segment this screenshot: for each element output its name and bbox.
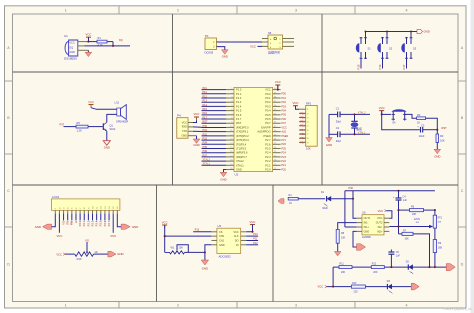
svg-text:P1.5: P1.5: [236, 109, 242, 113]
transistor Q1: [103, 122, 116, 131]
power VCC (DS18B20): [86, 32, 92, 41]
node rail S3: [410, 30, 412, 32]
node xtal top: [353, 113, 355, 115]
svg-text:XTAL1: XTAL1: [236, 163, 244, 167]
wire RXD: [193, 126, 202, 128]
svg-text:VCC: VCC: [250, 44, 256, 48]
svg-text:P17: P17: [203, 116, 208, 119]
svg-text:自锁开关: 自锁开关: [268, 49, 280, 54]
svg-text:CH0: CH0: [219, 235, 225, 238]
svg-text:P00: P00: [300, 112, 305, 115]
svg-text:GND: GND: [202, 267, 208, 271]
svg-text:CH1: CH1: [219, 239, 225, 242]
svg-text:20K: 20K: [341, 271, 346, 274]
switch S4 reset key: [392, 110, 407, 125]
svg-text:IN1+: IN1+: [364, 226, 370, 229]
svg-text:P06: P06: [281, 118, 286, 121]
svg-text:P2.1: P2.1: [265, 163, 271, 167]
node R6 tap: [397, 209, 399, 211]
svg-text:P13: P13: [195, 229, 200, 232]
capacitor C4: [393, 191, 407, 234]
svg-text:GND: GND: [69, 51, 75, 54]
pins of P4: [188, 123, 197, 136]
svg-text:P2.0: P2.0: [78, 220, 82, 226]
svg-text:EA/VPP: EA/VPP: [261, 125, 271, 129]
svg-text:U5: U5: [362, 210, 366, 214]
svg-text:3: 3: [295, 9, 297, 13]
svg-text:S1: S1: [368, 46, 372, 50]
net labels RP1: [300, 112, 305, 144]
node rail S1: [364, 30, 366, 32]
svg-text:DO: DO: [235, 239, 239, 242]
switch S1 key: [356, 37, 371, 59]
svg-text:RED: RED: [323, 207, 328, 210]
display LCD1: [52, 195, 120, 210]
svg-text:P0.0: P0.0: [265, 92, 271, 96]
ground (U2): [220, 172, 227, 181]
power VCC (U2 pin40): [275, 80, 281, 89]
svg-text:GND: GND: [181, 134, 187, 137]
svg-text:P4: P4: [177, 114, 181, 118]
svg-text:P2.2: P2.2: [265, 159, 271, 163]
svg-text:CSDN @qiushi_sx: CSDN @qiushi_sx: [443, 307, 471, 311]
svg-text:GND: GND: [220, 177, 226, 181]
svg-text:1.2K: 1.2K: [77, 128, 83, 132]
svg-text:P2.1: P2.1: [82, 220, 86, 226]
pin wires of U1: [78, 42, 89, 51]
resistor R6: [399, 206, 435, 216]
svg-text:30pf: 30pf: [336, 119, 341, 123]
svg-text:P15: P15: [203, 108, 208, 111]
svg-text:E: E: [74, 221, 78, 223]
wire out to op-amp: [353, 199, 357, 219]
pin names U2: [236, 88, 271, 172]
svg-text:1: 1: [65, 304, 67, 308]
svg-text:P1.4: P1.4: [236, 104, 242, 108]
svg-text:P11: P11: [203, 91, 208, 94]
node rail drop: [434, 209, 436, 211]
wire DQ net: [85, 39, 131, 46]
wire S3 to rail: [410, 32, 412, 38]
capacitor C5: [388, 250, 400, 268]
ground (reset): [434, 149, 441, 158]
wire D1 to node: [331, 198, 353, 200]
svg-text:(RD)P3.7: (RD)P3.7: [236, 155, 247, 159]
node ADC gnd column: [204, 251, 206, 253]
wire S4 to R2: [405, 114, 417, 118]
net labels U2 right: [281, 93, 288, 172]
port GND (LCD right): [121, 224, 138, 229]
svg-text:1uF: 1uF: [396, 255, 401, 258]
sensor U1 DS18B20: [64, 34, 78, 61]
svg-text:P23: P23: [281, 156, 286, 159]
svg-text:XTAL1: XTAL1: [203, 163, 211, 166]
wire sum row: [333, 266, 448, 268]
wire vcc to C3: [382, 114, 420, 129]
port GND (sum row): [446, 264, 455, 271]
svg-text:R13: R13: [352, 282, 357, 285]
port GND (led chain): [278, 199, 284, 204]
node sum/RT1: [434, 266, 436, 268]
capacitor C3: [417, 123, 425, 138]
svg-text:VCC: VCC: [265, 88, 271, 92]
svg-text:VCC: VCC: [110, 234, 116, 238]
svg-text:TXD: TXD: [182, 130, 187, 133]
wire vcc bridge row: [325, 267, 352, 288]
wire gnd side: [328, 114, 330, 137]
svg-text:P10: P10: [203, 87, 208, 90]
ground (DS18B20): [85, 50, 92, 56]
svg-text:P24: P24: [281, 152, 286, 155]
svg-text:P01: P01: [300, 116, 305, 119]
svg-text:IN2+: IN2+: [377, 230, 383, 233]
svg-text:P03: P03: [300, 125, 305, 128]
wire TXD: [193, 130, 202, 132]
svg-text:P25: P25: [281, 147, 286, 150]
svg-text:S3: S3: [413, 46, 417, 50]
svg-text:RT1: RT1: [438, 217, 443, 220]
svg-text:LM358: LM358: [362, 235, 371, 239]
svg-text:3: 3: [295, 304, 297, 308]
svg-text:C2: C2: [336, 126, 340, 130]
wire LCD pin15 vcc: [112, 214, 114, 233]
svg-text:R1: R1: [98, 36, 102, 40]
svg-text:GND: GND: [364, 230, 370, 233]
wire W1 to node: [185, 251, 205, 253]
wire S2 to net: [382, 59, 384, 69]
op-amp U5 LM358: [362, 210, 384, 239]
svg-text:P04: P04: [300, 129, 305, 132]
svg-text:VCC: VCC: [69, 41, 74, 44]
svg-text:P11: P11: [253, 238, 258, 241]
node VCC/R1 junction: [87, 41, 89, 43]
svg-text:P2.3: P2.3: [90, 220, 94, 226]
svg-text:GND: GND: [117, 252, 123, 256]
wire C2 to crystal: [340, 133, 370, 135]
svg-text:RS: RS: [66, 221, 70, 225]
ground (speaker): [103, 141, 110, 150]
wire op-amp gnd: [353, 231, 357, 247]
pins U3: [211, 232, 246, 245]
net labels U2 left: [203, 87, 211, 166]
pins LCD1: [55, 210, 117, 213]
svg-text:10uF: 10uF: [419, 134, 425, 138]
svg-text:P26: P26: [281, 143, 286, 146]
wire in+: [345, 226, 357, 228]
svg-text:VCC: VCC: [88, 100, 94, 104]
svg-text:P03: P03: [281, 105, 286, 108]
switch S3 key: [402, 37, 417, 59]
ground (crystal): [326, 138, 333, 147]
node led/out: [352, 198, 354, 200]
wire out rail: [345, 191, 435, 227]
wire to S4: [382, 113, 391, 115]
svg-text:LCD1: LCD1: [52, 195, 60, 199]
svg-text:GND: GND: [434, 155, 440, 159]
svg-text:P1.7: P1.7: [236, 117, 242, 121]
svg-text:P06: P06: [300, 137, 305, 140]
svg-text:P01: P01: [281, 97, 286, 100]
svg-text:S2: S2: [389, 46, 393, 50]
resistor R8: [336, 223, 357, 252]
node xtal bottom: [353, 133, 355, 135]
svg-text:IN2-: IN2-: [378, 226, 383, 229]
svg-text:VCC: VCC: [182, 121, 187, 124]
svg-text:P16: P16: [378, 64, 382, 69]
svg-text:OUT1: OUT1: [364, 217, 371, 220]
svg-text:10K: 10K: [306, 147, 311, 151]
wire VCC to R10: [63, 253, 74, 256]
svg-text:XTAL1: XTAL1: [358, 130, 366, 134]
wire S1 to net: [360, 59, 362, 69]
svg-text:30K: 30K: [405, 237, 410, 240]
svg-text:P0.2: P0.2: [265, 100, 271, 104]
svg-text:10K: 10K: [179, 247, 184, 250]
svg-text:P1.6: P1.6: [236, 113, 242, 117]
svg-text:S4: S4: [392, 121, 396, 125]
svg-text:VCC: VCC: [162, 220, 168, 224]
wire C3 to RST node: [423, 129, 438, 131]
svg-text:D: D: [461, 262, 464, 266]
wire VO to R10: [86, 242, 88, 252]
wire R5 to Q1 base: [88, 126, 103, 128]
svg-text:P2.3: P2.3: [265, 155, 271, 159]
svg-text:RW: RW: [70, 220, 74, 225]
wire VCC to S5: [258, 45, 263, 47]
svg-text:OUT2: OUT2: [376, 222, 383, 225]
svg-text:ALE: ALE: [281, 131, 286, 134]
svg-text:P12: P12: [203, 95, 208, 98]
svg-text:R2: R2: [417, 113, 421, 117]
svg-text:P16: P16: [203, 112, 208, 115]
svg-text:2: 2: [177, 304, 179, 308]
node U3 VCC: [251, 231, 253, 233]
svg-text:XTAL2: XTAL2: [236, 159, 244, 163]
svg-text:20K: 20K: [373, 271, 378, 274]
resistor R11: [339, 262, 352, 273]
svg-text:VCC: VCC: [377, 217, 382, 220]
led D2: [406, 260, 414, 274]
svg-text:220: 220: [354, 290, 359, 293]
wiper arrow R10: [86, 252, 88, 254]
ground (ADC): [201, 260, 208, 271]
wire ADC gnd: [205, 245, 212, 260]
svg-text:R5: R5: [77, 121, 81, 125]
svg-text:P35: P35: [203, 146, 208, 149]
svg-text:C: C: [7, 189, 10, 193]
power VCC (U3): [246, 220, 255, 232]
svg-text:1uF: 1uF: [403, 199, 408, 202]
svg-text:VCC: VCC: [293, 101, 299, 105]
wire to R5: [64, 126, 77, 128]
power VCC (ADC): [162, 220, 168, 252]
wire R10 to gnd: [94, 253, 108, 255]
svg-text:(INT1)P3.3: (INT1)P3.3: [236, 138, 249, 142]
svg-text:(TXD)P3.1: (TXD)P3.1: [236, 130, 249, 134]
svg-text:U1: U1: [64, 34, 68, 38]
svg-text:ALE/PROG: ALE/PROG: [257, 130, 270, 134]
speaker LS1: [115, 101, 129, 124]
wire P1 pin1 to switch: [217, 41, 263, 43]
svg-text:P0.4: P0.4: [265, 109, 271, 113]
svg-text:VCC: VCC: [86, 32, 92, 36]
wire xtal bottom: [329, 133, 338, 135]
svg-text:1: 1: [65, 9, 67, 13]
svg-text:PSEN: PSEN: [281, 135, 288, 138]
svg-text:P17: P17: [402, 64, 406, 69]
wires U2 left nets: [202, 90, 227, 166]
node sum/C5: [390, 266, 392, 268]
resistor R13: [351, 282, 365, 293]
svg-text:P31: P31: [203, 129, 208, 132]
wires LCD data pins: [64, 214, 109, 221]
svg-text:VCC: VCC: [281, 126, 286, 129]
svg-text:GND: GND: [219, 244, 225, 247]
svg-text:10K: 10K: [341, 237, 346, 240]
svg-text:(T0)P3.4: (T0)P3.4: [236, 142, 247, 146]
node reset vcc: [381, 113, 383, 115]
svg-text:XTAL2: XTAL2: [203, 159, 211, 162]
wire LCD pin1 gnd: [52, 214, 56, 227]
svg-text:P21: P21: [281, 164, 286, 167]
resistor R5: [76, 121, 88, 132]
svg-text:D: D: [7, 262, 10, 266]
svg-text:PSEN: PSEN: [264, 134, 271, 138]
port GND (R10): [108, 251, 124, 257]
svg-text:(T1)P3.5: (T1)P3.5: [236, 146, 247, 150]
svg-text:4: 4: [406, 9, 408, 13]
wire CH0: [165, 235, 212, 237]
svg-text:C1: C1: [336, 106, 340, 110]
svg-text:P2.2: P2.2: [86, 220, 90, 226]
svg-text:VCC: VCC: [275, 80, 281, 84]
svg-text:P07: P07: [281, 122, 286, 125]
pins of S5: [262, 39, 294, 47]
svg-text:GND: GND: [104, 146, 110, 150]
microcontroller U2 AT89C51: [234, 87, 273, 176]
capacitor C2: [336, 126, 341, 143]
port GND (bridge row): [411, 283, 419, 290]
svg-text:30pf: 30pf: [336, 139, 341, 143]
svg-text:P2.7: P2.7: [265, 138, 271, 142]
svg-text:C3: C3: [421, 123, 425, 127]
thermistor RT1: [433, 210, 443, 240]
potentiometer W1: [165, 245, 189, 254]
node sum/R7: [428, 266, 430, 268]
svg-text:P34: P34: [203, 142, 208, 145]
node rail/C4: [397, 190, 399, 192]
svg-text:30K: 30K: [438, 246, 443, 249]
node U2 VCC: [277, 89, 279, 91]
svg-text:P04: P04: [281, 110, 286, 113]
resistor R1: [88, 36, 113, 47]
node DQ junction: [112, 45, 114, 47]
svg-text:1K: 1K: [94, 250, 97, 254]
svg-text:RXD: RXD: [182, 126, 187, 129]
svg-text:RP1: RP1: [306, 101, 312, 105]
pins RP1: [299, 109, 306, 142]
svg-text:P05: P05: [300, 133, 305, 136]
adc U3 ADC0832: [217, 224, 241, 258]
svg-text:Q1: Q1: [110, 123, 114, 127]
svg-text:P07: P07: [300, 141, 305, 144]
svg-text:P1.0: P1.0: [236, 88, 242, 92]
svg-text:P0.1: P0.1: [265, 96, 271, 100]
wire LCD pin16 gnd: [117, 214, 121, 227]
svg-text:LS1: LS1: [115, 101, 120, 105]
svg-text:P0.7: P0.7: [265, 121, 271, 125]
net labels U3 right: [253, 233, 258, 245]
svg-text:P36: P36: [349, 187, 354, 190]
resistor R9: [433, 240, 442, 268]
ground (P1): [222, 50, 229, 59]
port GND (op-amp): [357, 244, 366, 250]
svg-text:P2.5: P2.5: [99, 220, 103, 226]
svg-text:VCC: VCC: [318, 285, 324, 289]
wire speaker to Q1 collector: [107, 114, 117, 122]
resistor R4: [288, 194, 298, 205]
svg-text:P1.2: P1.2: [236, 96, 242, 100]
svg-text:P32: P32: [203, 133, 208, 136]
svg-text:R12: R12: [372, 262, 377, 265]
svg-text:GND: GND: [222, 54, 228, 58]
resistor pack RP1: [306, 101, 318, 150]
node RST: [436, 129, 438, 131]
svg-text:VCC: VCC: [378, 209, 384, 213]
svg-text:IN1-: IN1-: [364, 222, 369, 225]
svg-text:P02: P02: [300, 121, 305, 124]
svg-text:P20: P20: [281, 168, 286, 171]
switch S5 self-lock: [268, 31, 283, 54]
svg-text:P02: P02: [281, 101, 286, 104]
svg-text:VCC: VCC: [379, 106, 385, 110]
power VCC (reset): [379, 106, 385, 115]
svg-text:W1: W1: [171, 247, 175, 250]
svg-text:P15: P15: [356, 64, 360, 69]
svg-text:VO: VO: [85, 238, 89, 242]
port GND (LCD left): [35, 224, 52, 229]
led D1: [321, 191, 331, 210]
wire CS: [193, 231, 211, 233]
pins U2 left: [226, 88, 234, 170]
power VCC (P4): [193, 112, 199, 122]
svg-text:R3: R3: [440, 134, 444, 138]
wire U2 pin20 GND: [224, 170, 227, 173]
resistor R3: [436, 130, 445, 150]
svg-text:P37: P37: [60, 123, 65, 127]
svg-text:P2.6: P2.6: [265, 142, 271, 146]
svg-text:P36: P36: [203, 150, 208, 153]
svg-text:P2.7: P2.7: [107, 220, 111, 226]
wire R4 to D1: [298, 198, 325, 200]
wire S3 to net: [406, 59, 408, 69]
pins U2 right: [273, 88, 281, 170]
wire VCC to speaker: [91, 108, 117, 110]
wire C1 to crystal: [340, 113, 370, 115]
svg-text:DI: DI: [236, 244, 239, 247]
pins U5: [357, 218, 390, 231]
svg-text:P12: P12: [253, 242, 258, 245]
svg-text:GND: GND: [236, 168, 242, 172]
svg-text:CLK: CLK: [234, 235, 239, 238]
node vcc bridge: [332, 286, 334, 288]
svg-text:XTAL2: XTAL2: [358, 111, 366, 115]
wire key common rail: [365, 31, 417, 33]
svg-text:1K: 1K: [417, 121, 420, 125]
connector P1: [205, 34, 217, 54]
resistor R12: [371, 262, 384, 273]
wire in2- to RT1 wiper: [389, 225, 433, 229]
